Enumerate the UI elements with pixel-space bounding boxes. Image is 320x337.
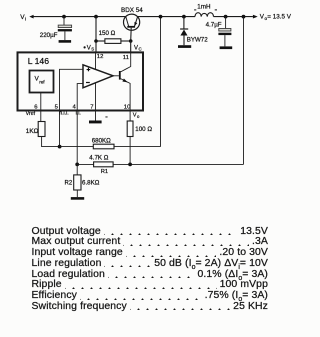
resistor R2 6.8K — [74, 164, 81, 197]
specification list — [32, 226, 269, 312]
svg-text:BYW72: BYW72 — [187, 37, 209, 44]
svg-text:680KΩ: 680KΩ — [92, 137, 111, 144]
svg-text:6.8KΩ: 6.8KΩ — [82, 179, 100, 186]
transistor internal base bar — [119, 71, 121, 80]
wire top rail right of transistor — [137, 16, 195, 18]
svg-text:BDX 54: BDX 54 — [121, 7, 143, 14]
pin label Vo — [133, 112, 140, 118]
svg-text:220µF: 220µF — [40, 32, 58, 39]
node junction dot input cap — [62, 15, 66, 19]
svg-text:ref: ref — [39, 79, 45, 84]
op-amp comparator triangle — [83, 65, 113, 88]
wire Vref to pin 6 — [40, 93, 42, 122]
svg-text:i: i — [25, 17, 26, 22]
node junction dot 100ohm bottom — [128, 163, 132, 167]
wire op-amp + input to pin 5 — [60, 69, 84, 146]
ground (diode) — [178, 45, 191, 48]
ground (output cap) — [220, 46, 233, 49]
transistor Q1 BDX54 — [124, 14, 140, 41]
wire internal emitter to pin 10 — [121, 79, 131, 121]
ground (input cap) — [59, 40, 72, 43]
svg-text:V: V — [87, 45, 91, 51]
node Vi input label — [20, 14, 26, 22]
inductor L1 1mH — [195, 13, 214, 17]
resistor 150 ohm (base drive) — [96, 39, 131, 44]
svg-text:12: 12 — [97, 54, 104, 60]
stray dash mark — [105, 116, 107, 117]
svg-text:R2: R2 — [65, 181, 73, 187]
wire Vs column (rail to pin 12) — [95, 17, 97, 53]
wire Vc column (base node to pin 11) — [130, 41, 132, 53]
wire feedback column (output to R1) — [243, 17, 245, 165]
svg-text:10: 10 — [124, 104, 131, 110]
svg-text:Vref: Vref — [26, 111, 36, 117]
wire cap drop — [63, 17, 65, 26]
node junction dot pin5/680K — [58, 145, 62, 149]
wire op-amp output to Q base — [113, 75, 119, 77]
wire op-amp - input to pin 4 — [77, 84, 83, 165]
node junction dot 150ohm right — [129, 39, 133, 43]
node junction dot 150ohm left — [94, 39, 98, 43]
svg-text:= 13.5 V: = 13.5 V — [267, 14, 291, 21]
Vref block — [30, 71, 54, 93]
op-amp IC U1 L146 outline — [18, 52, 144, 110]
node junction dot hysteresis rail — [159, 15, 163, 19]
capacitor C 4.7uF — [218, 17, 231, 47]
svg-text:150 Ω: 150 Ω — [99, 30, 116, 37]
wire internal supply/ground column — [95, 53, 97, 121]
svg-text:C: C — [139, 47, 142, 52]
wire top rail left (Vi to transistor) — [33, 16, 126, 18]
svg-text:V: V — [134, 45, 138, 51]
svg-text:4.7K Ω: 4.7K Ω — [89, 154, 108, 161]
diode D1 BYW72 — [180, 17, 188, 46]
node junction dot feedback — [242, 15, 246, 19]
resistor R1 4.7K — [77, 162, 243, 167]
node label Vo = 13.5V — [260, 14, 292, 22]
svg-text:11: 11 — [123, 55, 129, 61]
node junction dot diode rail — [182, 15, 186, 19]
capacitor C 220uF — [58, 25, 72, 40]
svg-text:7: 7 — [90, 104, 93, 110]
resistor 1K ohm (pin 6) — [38, 122, 59, 147]
ground (pin 7) — [89, 121, 102, 124]
node junction dot pin4/R1/R2 — [75, 163, 79, 167]
op-amp + sign — [87, 68, 91, 72]
svg-text:i.i.: i.i. — [76, 110, 81, 116]
svg-text:1KΩ: 1KΩ — [26, 128, 39, 135]
node junction dot output cap — [224, 15, 228, 19]
svg-text:4.7µF: 4.7µF — [206, 22, 222, 29]
emitter arrow — [122, 79, 127, 83]
node junction dot Vs column — [94, 15, 98, 19]
svg-text:1mH: 1mH — [197, 4, 211, 11]
wire hysteresis column (rail to 680K) — [160, 17, 162, 147]
op-amp - sign — [86, 82, 90, 83]
wire top rail output — [214, 16, 253, 18]
resistor 680K — [60, 144, 161, 149]
input arrow — [29, 15, 33, 19]
svg-text:n.i.i.: n.i.i. — [59, 110, 69, 116]
svg-text:L 146: L 146 — [28, 56, 49, 66]
svg-text:100 Ω: 100 Ω — [135, 126, 152, 133]
wire internal collector to pin 11 — [121, 53, 131, 72]
node label Vs — [84, 45, 95, 51]
output arrow — [253, 15, 258, 19]
ground (R2) — [71, 197, 84, 200]
resistor 100 ohm — [127, 121, 133, 164]
svg-text:o: o — [137, 114, 140, 119]
label 1mH — [194, 4, 217, 11]
node label Vc — [134, 45, 142, 51]
svg-text:S: S — [91, 47, 94, 52]
svg-text:R1: R1 — [101, 169, 108, 175]
